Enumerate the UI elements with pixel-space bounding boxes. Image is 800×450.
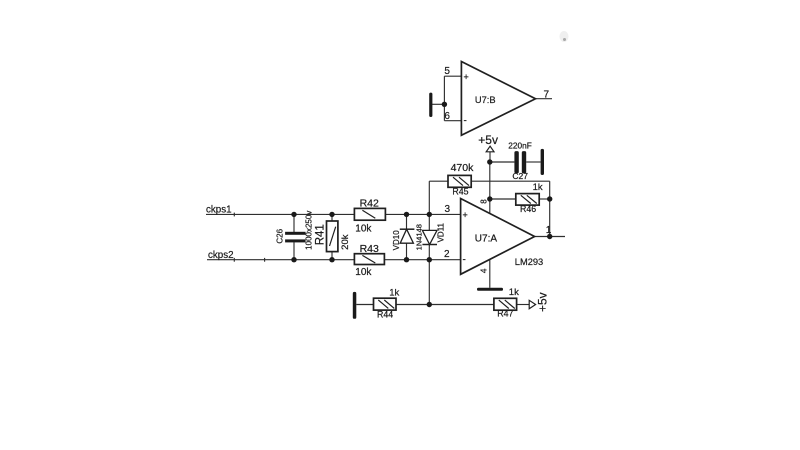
junction dot ckps2/R41 xyxy=(329,257,334,262)
svg-text:-: - xyxy=(463,255,466,266)
wire U7:B input vertical xyxy=(443,76,445,121)
wire feedback vertical into node A xyxy=(428,181,430,214)
svg-text:U7:A: U7:A xyxy=(475,234,498,245)
junction dot ckps1/R41 xyxy=(329,212,334,217)
svg-text:6: 6 xyxy=(444,111,450,122)
wire R44 right to divider node xyxy=(396,304,429,306)
diode VD11 cathode bar xyxy=(422,244,437,246)
wire ckps1 between R42 and U7:A pin3 xyxy=(385,213,460,215)
wire ckps2 between R43 and U7:A pin2 xyxy=(385,259,461,261)
resistor R41 body xyxy=(327,221,338,252)
junction dot divider node xyxy=(427,302,432,307)
op-amp U7:A xyxy=(461,199,535,275)
svg-text:C26: C26 xyxy=(275,228,284,243)
junction dot output U7:A xyxy=(547,234,552,239)
wire C27 right to terminator xyxy=(526,161,540,163)
svg-text:8: 8 xyxy=(479,199,488,204)
svg-text:+: + xyxy=(464,72,469,82)
wire +5v node down to pin8 node xyxy=(489,162,491,199)
wire C26 top stub xyxy=(293,214,295,232)
svg-text:+5v: +5v xyxy=(536,292,550,312)
junction dot +5v/C27 xyxy=(487,159,492,164)
wire right vertical feedback corner down to output xyxy=(549,181,551,236)
resistor R44 body xyxy=(374,298,397,310)
svg-text:4: 4 xyxy=(479,268,489,273)
wire U7:A output xyxy=(535,236,565,238)
resistor R44 diagonals xyxy=(378,300,394,308)
resistor R47 body xyxy=(494,298,517,310)
terminator bar left of U7:B xyxy=(429,93,432,117)
power symbol +5v arrow right (bottom) xyxy=(529,300,535,309)
wire ckps2 horizontal left xyxy=(207,259,355,261)
wire R46 left xyxy=(490,198,516,200)
svg-text:1k: 1k xyxy=(533,182,543,193)
wire VD11 top stub xyxy=(428,214,430,230)
junction dot ckps1/C26 xyxy=(291,212,296,217)
resistor R43 diagonal xyxy=(362,255,375,263)
resistor R42 body xyxy=(354,208,385,220)
svg-text:20k: 20k xyxy=(340,234,351,250)
svg-text:U7:B: U7:B xyxy=(475,95,496,105)
junction dot ckps2/C26 xyxy=(291,257,296,262)
svg-text:10k: 10k xyxy=(355,223,372,234)
svg-text:C27: C27 xyxy=(512,171,528,181)
junction dot pin2/VD10 xyxy=(404,257,409,262)
resistor R42 diagonal xyxy=(362,210,375,218)
resistor R43 body xyxy=(354,254,384,265)
resistor R46 body xyxy=(516,194,539,206)
wire U7:B pin6 xyxy=(444,120,461,122)
artifact smudge top right xyxy=(560,31,569,42)
svg-text:470k: 470k xyxy=(451,162,475,174)
wire divider node to R47 xyxy=(429,304,494,306)
junction dot U7:B inputs xyxy=(442,102,447,107)
wire C26 bottom stub xyxy=(293,242,295,260)
svg-text:5: 5 xyxy=(444,66,450,77)
svg-text:LM293: LM293 xyxy=(515,257,543,267)
svg-text:R45: R45 xyxy=(452,186,468,196)
svg-text:R42: R42 xyxy=(360,197,379,209)
op-amp U7:B xyxy=(461,62,535,136)
wire R45 left xyxy=(429,180,448,182)
diode VD11 triangle xyxy=(422,230,437,244)
diode VD10 triangle xyxy=(400,229,413,243)
svg-text:1k: 1k xyxy=(509,287,519,298)
wire +5v stem xyxy=(489,152,491,162)
resistor R47 diagonals xyxy=(499,300,515,308)
wire R47 right to +5v arrow xyxy=(517,304,530,306)
ground bar under U7:A pin4 xyxy=(477,288,503,291)
terminator bar left of R44 xyxy=(353,292,357,319)
node ckps1 label xyxy=(0,0,1,1)
svg-text:VD11: VD11 xyxy=(437,222,446,242)
capacitor C26 plate top xyxy=(285,232,306,235)
wire R45 right to corner xyxy=(471,180,550,182)
svg-text:R47: R47 xyxy=(497,309,513,319)
svg-text:2: 2 xyxy=(444,249,450,260)
svg-text:1k: 1k xyxy=(389,288,399,299)
wire C27 left xyxy=(490,161,515,163)
svg-text:+5v: +5v xyxy=(478,133,498,147)
wire bias vertical down to divider node xyxy=(428,260,430,305)
wire VD11 bottom stub xyxy=(428,245,430,260)
wire U7:B pin5 xyxy=(444,75,461,77)
capacitor C26 plate bottom xyxy=(285,239,306,242)
svg-text:R43: R43 xyxy=(360,243,379,255)
wire R41 bottom stub xyxy=(331,252,333,260)
power symbol +5v top (open triangle) xyxy=(486,146,494,152)
wire VD10 bottom stub xyxy=(406,243,408,260)
pin tick ckps2 b xyxy=(264,258,266,262)
terminator bar right of C27 xyxy=(541,149,544,175)
capacitor C27 plate right xyxy=(522,151,526,173)
capacitor C27 plate left xyxy=(514,151,518,173)
wire U7:B to terminator xyxy=(432,103,444,105)
svg-text:3: 3 xyxy=(445,204,451,215)
wire VD10 top stub xyxy=(406,214,408,229)
resistor R45 diagonals xyxy=(453,177,469,185)
svg-text:ckps1: ckps1 xyxy=(206,205,232,216)
wire U7:A pin8 stub xyxy=(489,199,491,214)
svg-text:10k: 10k xyxy=(355,267,372,278)
svg-text:+: + xyxy=(463,210,468,220)
wire U7:B output xyxy=(536,98,553,100)
junction dot R46 right xyxy=(547,196,552,201)
svg-text:-: - xyxy=(464,116,467,127)
svg-text:R46: R46 xyxy=(520,204,536,214)
junction dot pin2/VD11 xyxy=(427,257,432,262)
svg-text:R41: R41 xyxy=(314,224,326,245)
pin tick ckps1 xyxy=(233,213,235,217)
wire U7:A pin4 stub xyxy=(489,259,491,288)
diode VD10 cathode bar xyxy=(400,228,415,230)
wire R44 left xyxy=(356,304,373,306)
svg-text:ckps2: ckps2 xyxy=(208,250,234,261)
wire R41 top stub xyxy=(331,214,333,221)
resistor R45 body xyxy=(448,175,471,187)
resistor R41 diagonal xyxy=(330,227,336,246)
wire ckps1 horizontal left xyxy=(206,213,355,215)
junction dot pin3/VD11 xyxy=(427,212,432,217)
wire R46 right xyxy=(539,198,550,200)
svg-text:VD10: VD10 xyxy=(392,230,401,251)
svg-text:7: 7 xyxy=(544,89,550,100)
svg-text:R44: R44 xyxy=(377,309,393,319)
junction dot pin3/VD10 xyxy=(404,212,409,217)
svg-text:1000x250v: 1000x250v xyxy=(305,211,314,250)
junction dot pin8/R46 xyxy=(487,196,492,201)
pin tick ckps2 a xyxy=(233,258,235,262)
svg-text:220nF: 220nF xyxy=(508,140,532,150)
resistor R46 diagonals xyxy=(521,195,537,203)
svg-text:1: 1 xyxy=(546,225,552,236)
svg-text:1N4148: 1N4148 xyxy=(415,224,424,250)
